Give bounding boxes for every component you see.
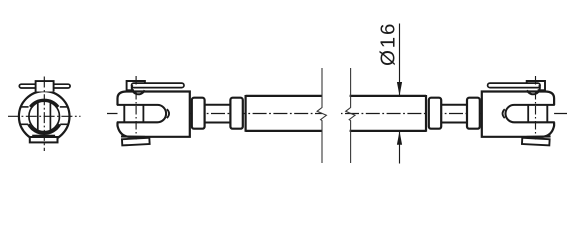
svg-text:Ø16: Ø16: [376, 22, 399, 66]
